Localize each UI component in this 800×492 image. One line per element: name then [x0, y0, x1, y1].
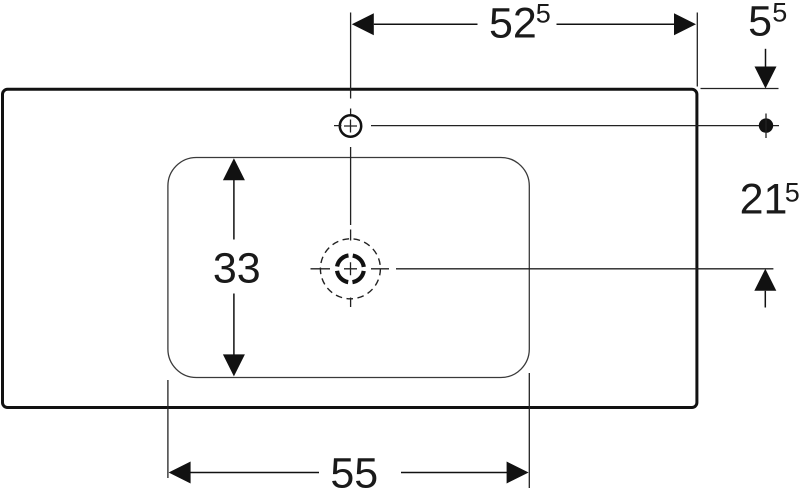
dim 52.5: left arrow — [352, 13, 374, 35]
dim 52.5: right extension line — [696, 13, 698, 87]
dimension dot terminator — [759, 118, 773, 132]
svg-text:21: 21 — [740, 176, 788, 224]
dim 5.5: top edge extension line — [701, 88, 779, 90]
countertop outline — [3, 89, 697, 407]
faucet horizontal center line — [334, 125, 779, 127]
svg-text:33: 33 — [213, 245, 261, 293]
dot tick — [765, 114, 767, 139]
dim 52.5: dimension line — [374, 23, 674, 25]
dim 5.5: down arrow — [755, 67, 777, 89]
basin outline — [168, 158, 529, 378]
drain dashed circle — [320, 239, 380, 299]
vertical center line — [350, 13, 352, 308]
dim 21.5: up arrow tail — [764, 291, 766, 308]
dim 21.5: up arrow — [754, 269, 776, 291]
dim 5.5: down arrow tail — [765, 49, 767, 67]
dim 55: right extension line — [528, 373, 530, 488]
svg-text:5: 5 — [772, 0, 787, 28]
drain horizontal center line — [311, 268, 774, 270]
dim 55: left extension line — [167, 380, 169, 478]
dim 52.5: right arrow — [674, 13, 696, 35]
svg-text:55: 55 — [330, 449, 378, 492]
dim 55: dimension line — [190, 472, 507, 474]
faucet hole center cross — [344, 120, 357, 133]
svg-text:52: 52 — [489, 0, 537, 47]
dim 55: left arrow — [169, 462, 191, 484]
faucet hole — [340, 115, 361, 136]
drain ring — [337, 255, 364, 282]
dim 55: right arrow — [507, 462, 529, 484]
dim 33: up arrow — [223, 158, 245, 180]
svg-text:5: 5 — [748, 0, 772, 46]
drain center cross — [344, 262, 357, 275]
svg-text:5: 5 — [536, 0, 551, 28]
svg-text:5: 5 — [785, 177, 800, 207]
dim 33: dimension line — [233, 180, 235, 355]
dim 33: down arrow — [223, 354, 245, 376]
